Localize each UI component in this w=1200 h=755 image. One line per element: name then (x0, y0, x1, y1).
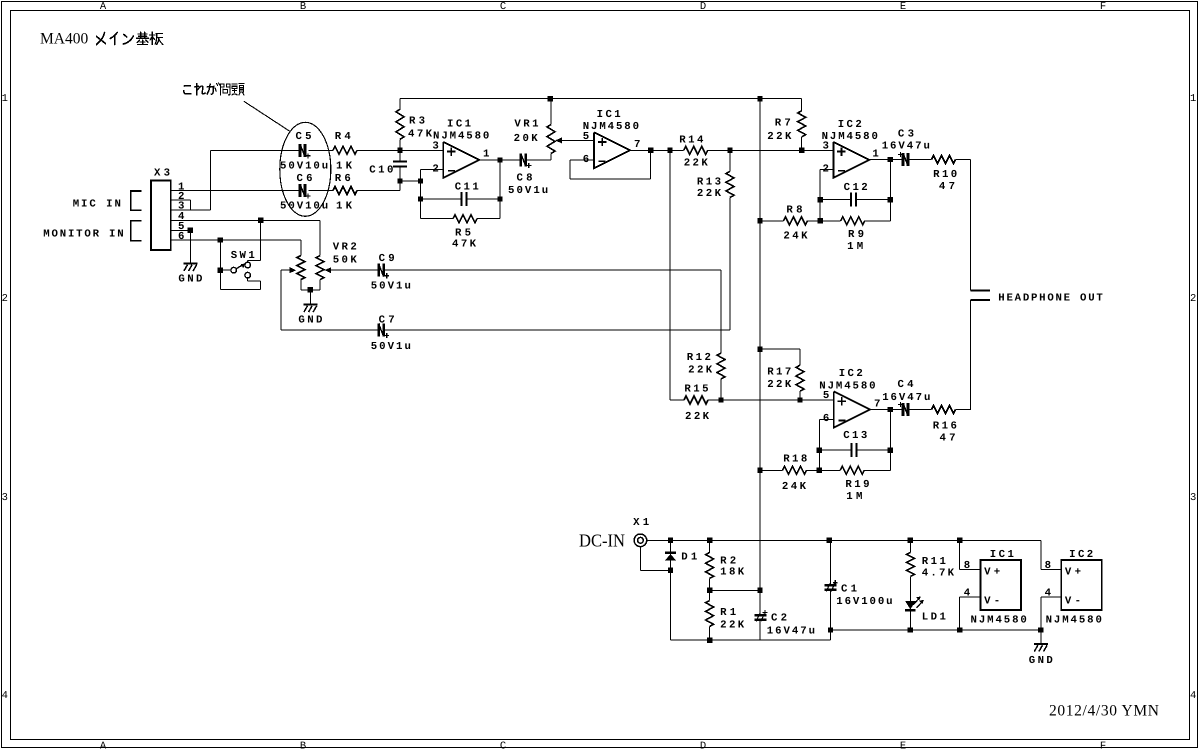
svg-text:MA400: MA400 (40, 31, 88, 48)
svg-text:16V100u: 16V100u (836, 596, 892, 608)
svg-text:GND: GND (1029, 655, 1053, 667)
svg-text:F: F (1100, 741, 1106, 751)
svg-text:NJM4580: NJM4580 (433, 131, 489, 143)
svg-text:NJM4580: NJM4580 (971, 615, 1027, 627)
svg-text:24K: 24K (782, 481, 807, 493)
svg-text:3: 3 (822, 140, 828, 152)
svg-text:E: E (900, 1, 906, 13)
svg-text:22K: 22K (720, 619, 745, 631)
svg-text:C13: C13 (843, 430, 867, 442)
svg-text:50V1u: 50V1u (371, 281, 411, 293)
svg-text:47K: 47K (452, 239, 477, 251)
svg-text:E: E (900, 741, 906, 751)
svg-text:B: B (300, 1, 306, 13)
svg-text:C: C (500, 1, 506, 13)
svg-text:NJM4580: NJM4580 (583, 121, 639, 133)
svg-text:IC2: IC2 (838, 119, 862, 131)
svg-text:R11: R11 (922, 556, 946, 568)
svg-text:R12: R12 (687, 352, 711, 364)
svg-text:20K: 20K (514, 133, 539, 145)
svg-text:D: D (700, 741, 706, 751)
svg-text:R16: R16 (933, 420, 957, 432)
svg-text:3: 3 (1190, 492, 1196, 504)
svg-text:C10: C10 (369, 164, 393, 176)
svg-text:3: 3 (2, 492, 8, 504)
svg-text:VR2: VR2 (333, 242, 357, 254)
svg-text:22K: 22K (767, 379, 792, 391)
svg-text:GND: GND (178, 274, 202, 286)
svg-text:5: 5 (583, 131, 589, 143)
svg-text:GND: GND (298, 315, 322, 327)
svg-text:HEADPHONE OUT: HEADPHONE OUT (998, 292, 1103, 304)
svg-text:B: B (300, 741, 306, 751)
svg-text:6: 6 (178, 231, 184, 243)
svg-text:IC1: IC1 (990, 549, 1014, 561)
svg-text:1: 1 (2, 93, 8, 105)
svg-text:5: 5 (823, 390, 829, 402)
svg-text:A: A (100, 1, 107, 13)
svg-text:IC1: IC1 (447, 119, 471, 131)
svg-text:50V1u: 50V1u (371, 341, 411, 353)
svg-text:MONITOR IN: MONITOR IN (43, 228, 123, 240)
svg-text:50V1u: 50V1u (508, 185, 548, 197)
svg-text:2: 2 (2, 293, 8, 305)
svg-text:1: 1 (1190, 93, 1196, 105)
svg-text:18K: 18K (720, 567, 745, 579)
svg-text:R19: R19 (845, 479, 869, 491)
svg-text:1: 1 (872, 149, 878, 161)
svg-text:22K: 22K (688, 365, 713, 377)
svg-text:2: 2 (1190, 293, 1196, 305)
svg-text:2012/4/30 YMN: 2012/4/30 YMN (1049, 703, 1159, 720)
svg-text:R13: R13 (697, 176, 721, 188)
svg-text:47K: 47K (408, 129, 433, 141)
svg-text:NJM4580: NJM4580 (822, 131, 878, 143)
svg-text:4: 4 (964, 588, 971, 600)
svg-text:7: 7 (874, 399, 880, 411)
svg-text:4: 4 (1190, 690, 1196, 702)
svg-text:VR1: VR1 (514, 119, 538, 131)
svg-text:IC2: IC2 (839, 368, 863, 380)
svg-text:8: 8 (1045, 560, 1051, 572)
svg-text:R18: R18 (783, 453, 807, 465)
svg-text:22K: 22K (767, 131, 792, 143)
svg-text:24K: 24K (783, 231, 808, 243)
svg-text:NJM4580: NJM4580 (1046, 615, 1102, 627)
svg-text:7: 7 (634, 139, 640, 151)
svg-text:DC-IN: DC-IN (579, 531, 625, 551)
svg-text:50K: 50K (333, 255, 358, 267)
svg-text:22K: 22K (684, 157, 709, 169)
svg-text:4: 4 (2, 690, 8, 702)
svg-text:F: F (1100, 1, 1106, 13)
svg-text:3: 3 (432, 140, 438, 152)
svg-text:22K: 22K (685, 411, 710, 423)
svg-text:22K: 22K (697, 188, 722, 200)
svg-text:IC1: IC1 (597, 109, 621, 121)
svg-text:R17: R17 (767, 367, 791, 379)
svg-text:LD1: LD1 (922, 611, 946, 623)
svg-text:8: 8 (964, 560, 970, 572)
svg-text:4.7K: 4.7K (922, 567, 955, 579)
svg-text:R15: R15 (684, 384, 708, 396)
svg-text:4: 4 (1045, 588, 1052, 600)
svg-text:D: D (700, 1, 706, 13)
svg-text:R10: R10 (933, 169, 957, 181)
svg-text:IC2: IC2 (1069, 549, 1093, 561)
svg-text:R14: R14 (679, 134, 704, 146)
svg-text:C11: C11 (455, 181, 479, 193)
svg-text:C: C (500, 741, 506, 751)
svg-text:A: A (100, 741, 107, 751)
svg-text:1: 1 (483, 149, 489, 161)
svg-text:C12: C12 (844, 182, 868, 194)
